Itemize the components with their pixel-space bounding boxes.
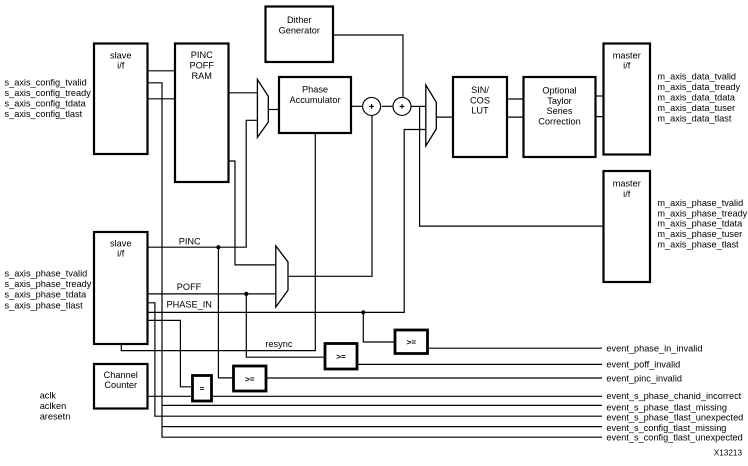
wire event_s_config_tlast_missing branch [162, 426, 602, 428]
svg-text:i/f: i/f [623, 61, 631, 71]
adder A1 (phase accumulate) [363, 97, 381, 115]
comparator >= (pinc check) [234, 366, 267, 391]
block master i/f (data) [604, 44, 651, 155]
svg-text:>=: >= [245, 375, 255, 384]
svg-text:Taylor: Taylor [547, 96, 572, 106]
svg-text:s_axis_config_tlast: s_axis_config_tlast [5, 109, 83, 119]
wire phase out to master-phase i/f [420, 106, 604, 226]
wire adder A1 to adder A2 [382, 105, 393, 107]
svg-text:i/f: i/f [623, 189, 631, 199]
wire mux M3 output to adder A1 [288, 116, 372, 276]
comparator >= (phase_in check) [395, 330, 428, 354]
wire RAM to mux M3 upper input [229, 161, 276, 265]
wire LUT to Taylor lower [507, 116, 524, 118]
svg-text:s_axis_phase_tvalid: s_axis_phase_tvalid [5, 269, 88, 279]
svg-text:m_axis_phase_tdata: m_axis_phase_tdata [657, 219, 743, 229]
svg-text:=: = [200, 385, 205, 394]
svg-text:PINC: PINC [191, 50, 213, 60]
block SIN/COS LUT [453, 77, 507, 157]
svg-text:s_axis_phase_tdata: s_axis_phase_tdata [5, 290, 88, 300]
svg-text:m_axis_phase_tready: m_axis_phase_tready [657, 208, 747, 218]
junction PHASE_IN node [361, 310, 365, 314]
svg-text:Counter: Counter [104, 380, 137, 390]
svg-text:Phase: Phase [302, 85, 328, 95]
wire PHASE_IN branch to comparator >= (phase_in) [363, 312, 395, 342]
svg-text:RAM: RAM [192, 71, 212, 81]
svg-text:m_axis_data_tlast: m_axis_data_tlast [657, 113, 731, 123]
junction PINC node [216, 245, 220, 249]
svg-text:m_axis_data_tdata: m_axis_data_tdata [657, 92, 736, 102]
svg-text:event_pinc_invalid: event_pinc_invalid [606, 374, 682, 384]
wire event_s_phase_chanid_incorrect [212, 395, 603, 397]
svg-text:event_s_phase_tlast_missing: event_s_phase_tlast_missing [606, 403, 727, 413]
wire Taylor to master-data lower [596, 116, 604, 118]
svg-text:s_axis_phase_tlast: s_axis_phase_tlast [5, 300, 84, 310]
svg-text:event_s_phase_chanid_incorrect: event_s_phase_chanid_incorrect [606, 391, 741, 401]
wire POFF branch to comparator >= (poff) [246, 294, 325, 357]
svg-text:aclk: aclk [40, 390, 57, 400]
block Optional Taylor Series Correction [524, 77, 596, 157]
svg-text:event_s_config_tlast_missing: event_s_config_tlast_missing [606, 423, 726, 433]
svg-text:>=: >= [336, 353, 346, 362]
svg-text:event_phase_in_invalid: event_phase_in_invalid [606, 344, 702, 354]
block slave i/f (config) [94, 44, 148, 155]
svg-text:Dither: Dither [287, 15, 312, 25]
wire PINC net [148, 120, 258, 247]
svg-text:POFF: POFF [190, 61, 215, 71]
block Dither Generator [266, 7, 334, 63]
svg-text:s_axis_config_tvalid: s_axis_config_tvalid [5, 77, 87, 87]
wire POFF net [148, 293, 276, 295]
svg-text:Accumulator: Accumulator [289, 95, 340, 105]
wire event_pinc_invalid [266, 377, 602, 379]
adder A2 (dither add) [393, 97, 411, 115]
wire RAM to mux M1 upper input [229, 92, 258, 94]
wire event_poff_invalid [357, 363, 602, 365]
svg-text:s_axis_phase_tready: s_axis_phase_tready [5, 279, 92, 289]
svg-text:i/f: i/f [117, 249, 125, 259]
svg-text:Series: Series [546, 106, 572, 116]
wire slave-phase chanid to = comparator [148, 320, 193, 386]
wire event_phase_in_invalid [428, 347, 602, 349]
wire slave-config tlast events trunk [148, 83, 603, 437]
svg-text:resync: resync [265, 339, 292, 349]
block Channel Counter [94, 364, 148, 409]
block Phase Accumulator [279, 77, 351, 133]
svg-text:m_axis_phase_tlast: m_axis_phase_tlast [657, 240, 739, 250]
svg-text:m_axis_data_tvalid: m_axis_data_tvalid [657, 71, 736, 81]
comparator = (chanid check) [193, 376, 212, 402]
wire Phase Accumulator to adder A1 [351, 105, 362, 107]
svg-text:slave: slave [110, 238, 131, 248]
block master i/f (phase) [604, 171, 651, 282]
svg-text:master: master [613, 50, 641, 60]
svg-text:event_s_config_tlast_unexpecte: event_s_config_tlast_unexpected [606, 433, 742, 443]
svg-text:>=: >= [406, 338, 416, 347]
svg-text:X13213: X13213 [714, 449, 743, 458]
block slave i/f (phase) [94, 232, 148, 344]
wire event_s_phase_tlast_missing branch [162, 404, 602, 406]
wire slave-config to RAM upper [148, 70, 176, 72]
wire mux M2 output to SIN/COS LUT [436, 116, 453, 118]
svg-text:event_s_phase_tlast_unexpected: event_s_phase_tlast_unexpected [606, 413, 743, 423]
svg-text:PINC: PINC [179, 236, 201, 246]
svg-text:m_axis_phase_tvalid: m_axis_phase_tvalid [657, 198, 743, 208]
wire adder A2 to mux M2 [411, 105, 426, 107]
wire Taylor to master-data upper [596, 95, 604, 97]
wire PINC branch to comparator >= (pinc) [218, 247, 233, 378]
wire slave-phase to event_s_phase_tlast_unexpected [148, 303, 603, 416]
svg-text:COS: COS [470, 95, 490, 105]
mux M1 (PINC/POFF RAM select) [257, 80, 268, 138]
mux M3 (PINC/POFF select) [276, 246, 288, 307]
svg-text:Correction: Correction [538, 117, 580, 127]
svg-text:Generator: Generator [279, 26, 320, 36]
wire slave-config to RAM lower [148, 98, 176, 100]
wire PHASE_IN net [148, 130, 426, 313]
svg-text:event_poff_invalid: event_poff_invalid [606, 360, 680, 370]
svg-text:m_axis_data_tready: m_axis_data_tready [657, 82, 740, 92]
wire resync net [121, 133, 315, 351]
wire mux M1 output to Phase Accumulator [268, 109, 279, 111]
svg-text:m_axis_data_tuser: m_axis_data_tuser [657, 103, 735, 113]
mux M2 (phase select) [426, 85, 437, 146]
svg-text:POFF: POFF [177, 282, 202, 292]
wire Dither Generator to adder A2 [333, 35, 403, 97]
svg-text:s_axis_config_tready: s_axis_config_tready [5, 88, 92, 98]
wire Channel Counter to = comparator [148, 395, 193, 397]
svg-text:slave: slave [110, 50, 131, 60]
svg-text:i/f: i/f [117, 61, 125, 71]
svg-text:aclken: aclken [40, 401, 67, 411]
svg-text:aresetn: aresetn [40, 412, 71, 422]
svg-text:Optional: Optional [542, 85, 576, 95]
svg-text:master: master [613, 179, 641, 189]
junction POFF node [244, 292, 248, 296]
svg-text:LUT: LUT [471, 106, 489, 116]
block PINC POFF RAM [175, 44, 229, 183]
wire LUT to Taylor upper [507, 98, 524, 100]
comparator >= (poff check) [325, 344, 357, 370]
svg-text:m_axis_phase_tuser: m_axis_phase_tuser [657, 229, 742, 239]
svg-text:s_axis_config_tdata: s_axis_config_tdata [5, 98, 87, 108]
svg-text:Channel: Channel [104, 370, 138, 380]
svg-text:PHASE_IN: PHASE_IN [167, 300, 212, 310]
svg-text:SIN/: SIN/ [471, 85, 489, 95]
